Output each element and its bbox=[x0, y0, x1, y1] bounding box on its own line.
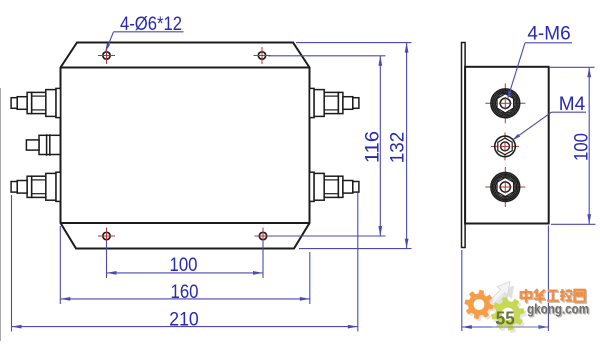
terminal stud left bottom bbox=[11, 172, 60, 201]
dimension 132 bbox=[296, 43, 412, 249]
svg-text:4-M6: 4-M6 bbox=[527, 24, 570, 45]
M6 terminal circle bottom bbox=[485, 167, 525, 207]
svg-text:55: 55 bbox=[496, 308, 515, 329]
side view body bbox=[465, 67, 549, 224]
mounting hole bottom-left bbox=[98, 228, 115, 245]
mounting hole top-right bbox=[254, 47, 271, 64]
mounting hole bottom-right bbox=[255, 228, 272, 245]
svg-text:160: 160 bbox=[171, 281, 199, 303]
watermark white arrow bbox=[490, 282, 515, 309]
svg-text:100: 100 bbox=[570, 133, 592, 161]
label 4-M6 with leader bbox=[507, 24, 572, 100]
watermark green gear bbox=[493, 300, 527, 334]
svg-text:gkong.com: gkong.com bbox=[527, 301, 589, 317]
mounting hole top-left bbox=[98, 47, 115, 64]
dimension 55 bbox=[462, 226, 549, 332]
svg-text:132: 132 bbox=[386, 132, 408, 164]
dimension 100 front bbox=[107, 241, 264, 279]
side view mounting plate bbox=[462, 43, 466, 248]
M6 terminal circle top bbox=[485, 83, 525, 123]
svg-text:100: 100 bbox=[170, 254, 198, 276]
dimension 116 bbox=[268, 56, 386, 236]
watermark orange gear bbox=[466, 292, 495, 321]
dimension 100 side bbox=[550, 67, 596, 224]
svg-text:116: 116 bbox=[361, 131, 383, 163]
svg-text:210: 210 bbox=[169, 308, 199, 330]
watermark text 中华工控网 bbox=[521, 289, 586, 304]
label 4-Ø6*12 with leader bbox=[105, 14, 183, 52]
dimension 160 bbox=[60, 226, 309, 304]
watermark text gkong.com bbox=[527, 301, 590, 318]
ground stud left middle bbox=[26, 134, 60, 156]
M4 ground circle middle bbox=[491, 132, 519, 160]
terminal stud right top bbox=[310, 88, 359, 117]
dimension 210 bbox=[12, 193, 358, 332]
scan border artifact bbox=[0, 88, 2, 341]
terminal stud right bottom bbox=[310, 172, 359, 201]
label M4 with leader bbox=[512, 94, 586, 141]
filter body front view outline bbox=[61, 43, 310, 249]
terminal stud left top bbox=[11, 88, 60, 117]
